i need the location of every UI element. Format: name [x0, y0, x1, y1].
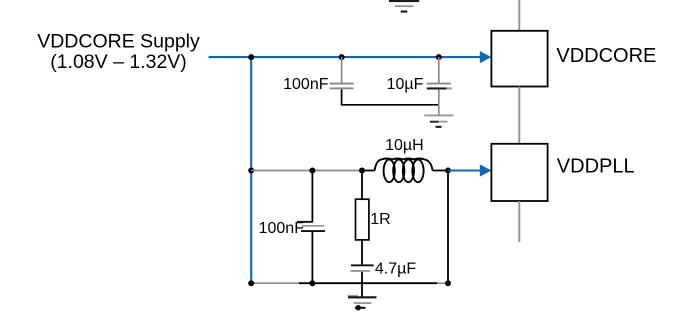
- wire VDDPLL feed: [448, 169, 482, 171]
- svg-text:VDDCORE Supply: VDDCORE Supply: [37, 30, 200, 52]
- wire inductor to VDDPLL node: [433, 170, 448, 172]
- junction bottom rail right: [445, 280, 451, 286]
- wire 100nF bottom to 10uF link: [342, 89, 439, 105]
- capacitor 4.7uF: [351, 264, 374, 272]
- capacitor 10uF: [427, 83, 452, 90]
- pin arrow VDDCORE: [480, 51, 492, 63]
- wire left vertical drop: [250, 57, 252, 283]
- wire bottom rail gray left: [251, 282, 299, 284]
- capacitor 100nF (bottom): [297, 221, 325, 232]
- wire VDDCORE supply rail: [209, 56, 482, 58]
- wire bottom rail gray right: [437, 282, 448, 284]
- capacitor 100nF (top): [330, 83, 354, 90]
- wire 100nF top stub: [341, 57, 343, 83]
- inductor L1 10uH: [375, 159, 433, 183]
- svg-text:VDDCORE: VDDCORE: [556, 45, 656, 67]
- pin box VDDPLL: [491, 144, 547, 201]
- wire 4.7uF to bottom rail: [361, 272, 363, 283]
- net label VDDCORE Supply: [37, 30, 200, 72]
- junction 100nF (bottom) tap: [309, 168, 315, 174]
- pin box VDDCORE: [491, 31, 547, 87]
- wire 100nF (bottom) top stub: [311, 171, 313, 223]
- svg-text:10µH: 10µH: [385, 137, 424, 154]
- wire bottom rail black middle: [299, 282, 437, 284]
- junction 100nF tap: [339, 54, 345, 60]
- junction supply rail / left drop: [248, 54, 254, 60]
- svg-text:(1.08V – 1.32V): (1.08V – 1.32V): [50, 51, 187, 73]
- wire ground stem: [361, 283, 363, 297]
- wire damping tap to resistor: [361, 171, 363, 200]
- svg-text:4.7µF: 4.7µF: [375, 261, 416, 278]
- resistor R1 1R: [356, 199, 369, 240]
- svg-text:100nF: 100nF: [259, 220, 305, 237]
- svg-text:1R: 1R: [370, 211, 390, 228]
- ground (top, partial): [389, 0, 419, 13]
- chip edge line (middle segment): [518, 87, 520, 145]
- svg-text:100nF: 100nF: [283, 76, 329, 93]
- junction bottom rail 100nF: [309, 280, 315, 286]
- wire VDDPLL node down right side: [447, 171, 449, 284]
- wire 10uF to ground: [438, 89, 440, 115]
- svg-text:10µF: 10µF: [387, 76, 424, 93]
- wire resistor to 4.7uF: [361, 240, 363, 265]
- wire 100nF (bottom) lower stub: [311, 232, 313, 283]
- junction bottom rail left: [248, 280, 254, 286]
- wire damping tap to inductor: [362, 170, 375, 172]
- ground (bottom): [348, 295, 377, 311]
- chip edge line (top segment): [518, 0, 520, 31]
- chip edge line (bottom segment): [518, 201, 520, 242]
- svg-text:VDDPLL: VDDPLL: [557, 156, 635, 178]
- junction VDDPLL node: [445, 168, 451, 174]
- ground (below 10uF): [424, 115, 453, 128]
- wire 10uF top stub: [438, 57, 440, 83]
- junction 10uF tap: [436, 54, 442, 60]
- pin arrow VDDPLL: [480, 164, 492, 176]
- wire filter top rail (gray): [251, 170, 362, 172]
- junction filter-in top left: [248, 168, 254, 174]
- junction damping branch tap: [359, 168, 365, 174]
